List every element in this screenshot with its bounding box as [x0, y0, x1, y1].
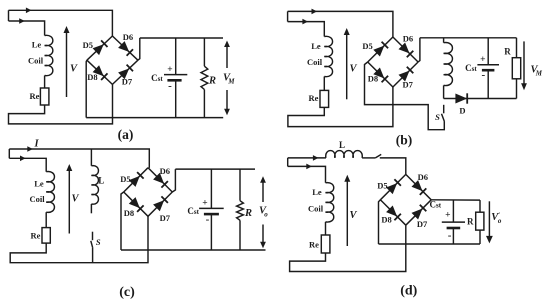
label V — [349, 210, 357, 221]
diode D8 — [380, 200, 405, 225]
label R — [467, 217, 474, 227]
svg-text:+: + — [167, 65, 172, 75]
wire bridge left to rail — [121, 192, 124, 250]
svg-text:D8: D8 — [381, 214, 391, 224]
diode D5 — [124, 168, 148, 192]
current arrow I on top wire — [26, 8, 32, 14]
svg-text:(d): (d) — [400, 284, 417, 299]
svg-text:R: R — [467, 217, 474, 227]
svg-text:Cst: Cst — [430, 200, 442, 210]
diode D7 — [393, 62, 418, 87]
svg-text:D7: D7 — [403, 80, 414, 90]
svg-text:Coil: Coil — [28, 56, 44, 66]
caption (b) — [396, 133, 413, 148]
wire bridge right up — [172, 169, 175, 192]
diode D5 — [87, 36, 113, 60]
label + — [480, 55, 485, 65]
voltage arrow V — [66, 164, 72, 234]
label - — [206, 213, 210, 225]
voltage arrow VM down — [521, 41, 527, 90]
svg-text:D: D — [459, 106, 465, 116]
wire switch to rail — [92, 248, 94, 263]
resistor Re — [40, 88, 49, 105]
label Cst — [151, 73, 163, 83]
wire left vertical — [8, 149, 10, 158]
svg-text:Re: Re — [309, 93, 319, 103]
label I — [33, 139, 39, 150]
svg-text:-: - — [168, 80, 172, 92]
svg-text:Le: Le — [312, 187, 322, 197]
label R — [244, 208, 252, 219]
current arrow on return wire — [20, 156, 26, 162]
label D5 — [120, 174, 130, 184]
wire capacitor Cst top lead — [487, 38, 489, 65]
label R — [208, 76, 216, 87]
label V — [349, 64, 357, 75]
label L — [98, 176, 104, 186]
wire coil to Re — [45, 212, 47, 227]
svg-text:Cst: Cst — [151, 73, 163, 83]
label D7 — [403, 80, 414, 90]
wire Re to bridge bottom — [9, 84, 113, 124]
label Re — [309, 240, 319, 250]
inductor L vertical — [444, 38, 453, 99]
svg-text:D8: D8 — [368, 73, 378, 83]
svg-text:Coil: Coil — [29, 194, 45, 204]
voltage arrow Vo up — [260, 176, 266, 202]
voltage arrow V — [64, 26, 70, 97]
inductor Le — [45, 35, 53, 75]
svg-text:Re: Re — [30, 91, 40, 101]
svg-text:+: + — [445, 211, 450, 221]
label - — [168, 80, 172, 92]
wire dc top rail — [175, 168, 255, 170]
diode D6 — [148, 168, 172, 192]
diode D5 — [380, 174, 405, 199]
inductor Le — [324, 36, 332, 76]
label Re — [309, 93, 319, 103]
wire coil to Re — [325, 222, 327, 235]
current arrow I on top wire — [313, 155, 319, 161]
svg-text:-: - — [206, 213, 210, 225]
label D8 — [124, 208, 134, 218]
wire top with node — [288, 11, 393, 37]
wire bridge left to rail — [85, 60, 88, 117]
diode D8 — [87, 60, 113, 84]
wire top left — [288, 157, 326, 159]
capacitor Cst positive plate — [199, 207, 224, 209]
resistor R — [512, 38, 520, 99]
svg-text:V: V — [349, 64, 357, 75]
caption (d) — [400, 284, 417, 299]
wire Re to bridge bottom — [288, 87, 393, 127]
wire capacitor Cst bottom lead — [175, 80, 177, 117]
wire dc top rail — [431, 199, 480, 201]
label D7 — [122, 76, 133, 86]
svg-text:L: L — [339, 140, 345, 150]
diode D8 — [124, 192, 148, 216]
capacitor Cst negative plate — [482, 69, 495, 72]
label V — [71, 194, 79, 205]
inductor Le — [46, 172, 54, 213]
svg-text:D6: D6 — [123, 32, 133, 42]
switch S contact — [92, 232, 94, 241]
diode D6 — [112, 36, 137, 60]
label D — [459, 106, 465, 116]
switch S blade — [442, 114, 445, 122]
svg-text:D5: D5 — [120, 174, 130, 184]
wire coil to Re — [323, 77, 325, 91]
wire dc top rail — [140, 37, 223, 39]
svg-text:L: L — [98, 176, 104, 186]
svg-text:(c): (c) — [119, 285, 135, 300]
svg-text:D8: D8 — [87, 72, 97, 82]
label + — [202, 198, 207, 208]
label - — [481, 69, 485, 81]
capacitor Cst positive plate — [164, 74, 187, 76]
svg-text:R: R — [244, 208, 252, 219]
switch S contact — [443, 105, 445, 114]
wire capacitor Cst top lead — [210, 169, 212, 208]
svg-text:D5: D5 — [83, 40, 93, 50]
label Le — [32, 40, 42, 50]
label S — [435, 112, 440, 122]
diode D7 — [406, 200, 431, 225]
wire dc top rail — [420, 37, 517, 39]
svg-text:D6: D6 — [160, 166, 170, 176]
svg-text:D6: D6 — [418, 172, 428, 182]
label + — [445, 211, 450, 221]
voltage arrow V — [344, 28, 350, 99]
label - — [448, 230, 452, 242]
wire Re to bridge bottom — [290, 225, 406, 271]
diode D7 — [148, 192, 172, 216]
wire to bridge top — [380, 158, 406, 175]
capacitor Cst negative plate — [167, 79, 181, 82]
label + — [167, 65, 172, 75]
label D7 — [160, 213, 171, 223]
label Le — [312, 187, 322, 197]
wire after coil — [362, 157, 375, 159]
svg-text:Le: Le — [34, 178, 44, 188]
label D6 — [403, 33, 413, 43]
wire dc bottom rail — [444, 98, 517, 100]
svg-text:Cst: Cst — [465, 63, 477, 73]
voltage arrow VM up — [224, 41, 230, 69]
wire top with node — [9, 149, 149, 168]
current arrow on return wire — [302, 19, 308, 25]
wire top with node — [9, 10, 113, 36]
svg-text:Coil: Coil — [308, 204, 324, 214]
svg-text:R: R — [208, 76, 216, 87]
capacitor Cst positive plate — [442, 221, 465, 223]
svg-text:R: R — [504, 46, 511, 56]
label D8 — [87, 72, 97, 82]
label Vo prime — [491, 212, 502, 226]
current arrow I on top wire — [312, 9, 318, 15]
wire bridge right up — [418, 38, 420, 62]
svg-text:Le: Le — [311, 41, 321, 51]
switch blade — [375, 154, 381, 158]
capacitor Cst negative plate — [204, 213, 219, 216]
label Coil — [29, 194, 45, 204]
voltage arrow VM down — [224, 90, 230, 115]
label D8 — [381, 214, 391, 224]
wire left vertical — [287, 158, 289, 167]
svg-text:-: - — [481, 69, 485, 81]
svg-text:D7: D7 — [417, 219, 428, 229]
inductor L branch — [91, 149, 98, 213]
svg-text:D8: D8 — [124, 208, 134, 218]
label Coil — [308, 204, 324, 214]
svg-text:Re: Re — [31, 231, 41, 241]
label L — [339, 140, 345, 150]
inductor L horizontal — [326, 151, 363, 158]
label D7 — [417, 219, 428, 229]
svg-text:+: + — [480, 55, 485, 65]
voltage arrow Vo down — [486, 201, 493, 243]
label S — [96, 237, 101, 247]
label Coil — [307, 57, 323, 67]
wire bridge left to rail — [379, 200, 381, 244]
svg-text:Cst: Cst — [187, 206, 199, 216]
svg-text:+: + — [202, 198, 207, 208]
resistor Re — [321, 235, 330, 253]
label Le — [311, 41, 321, 51]
svg-text:(a): (a) — [118, 127, 134, 142]
wire second — [288, 166, 326, 182]
voltage arrow Vo down — [260, 225, 266, 249]
label D5 — [362, 41, 372, 51]
voltage arrow V — [344, 175, 350, 246]
switch S blade — [91, 241, 93, 248]
wire left vertical — [287, 11, 289, 21]
diode D — [455, 93, 467, 103]
current arrow I on top wire — [27, 146, 33, 152]
label VM — [531, 65, 543, 78]
wire dc bottom rail — [379, 243, 481, 245]
caption (c) — [119, 285, 135, 300]
current arrow on return wire — [306, 164, 312, 170]
label D5 — [377, 180, 387, 190]
diode D8 — [368, 62, 393, 87]
wire capacitor Cst bottom lead — [487, 70, 489, 98]
svg-text:D7: D7 — [122, 76, 133, 86]
diode D6 — [393, 37, 418, 62]
capacitor Cst negative plate — [447, 227, 461, 230]
wire bridge left down — [365, 62, 445, 130]
label R — [504, 46, 511, 56]
wire second — [9, 21, 45, 36]
label VM — [223, 73, 235, 86]
wire capacitor Cst top lead — [175, 38, 177, 75]
svg-text:Re: Re — [309, 240, 319, 250]
label Re — [30, 91, 40, 101]
resistor R — [237, 169, 244, 250]
label Cst — [465, 63, 477, 73]
svg-text:S: S — [96, 237, 101, 247]
svg-text:S: S — [435, 112, 440, 122]
wire second — [9, 158, 46, 171]
diode D5 — [368, 37, 393, 62]
label Vo — [259, 206, 268, 219]
label Re — [31, 231, 41, 241]
resistor Re — [42, 228, 50, 244]
label D6 — [123, 32, 133, 42]
svg-text:D5: D5 — [362, 41, 372, 51]
capacitor Cst positive plate — [477, 64, 499, 66]
svg-text:V: V — [349, 210, 357, 221]
label Le — [34, 178, 44, 188]
inductor Le — [326, 183, 334, 222]
wire capacitor Cst bottom lead — [452, 228, 454, 244]
svg-text:Coil: Coil — [307, 57, 323, 67]
label Cst — [187, 206, 199, 216]
wire second — [288, 22, 325, 37]
svg-text:D6: D6 — [403, 33, 413, 43]
svg-text:D5: D5 — [377, 180, 387, 190]
label D6 — [160, 166, 170, 176]
current arrow on return wire — [19, 18, 25, 24]
wire dc bottom rail — [121, 249, 266, 251]
wire capacitor Cst top lead — [452, 200, 454, 222]
svg-text:V: V — [70, 64, 78, 75]
label Cst — [430, 200, 442, 210]
label D5 — [83, 40, 93, 50]
svg-text:D7: D7 — [160, 213, 171, 223]
label Coil — [28, 56, 44, 66]
label V — [70, 64, 78, 75]
label D8 — [368, 73, 378, 83]
wire left vertical — [8, 10, 10, 21]
wire Re to bottom — [10, 216, 148, 262]
svg-text:-: - — [448, 230, 452, 242]
caption (a) — [118, 127, 134, 142]
svg-text:(b): (b) — [396, 133, 413, 148]
resistor R — [476, 200, 484, 244]
wire bridge right up — [138, 38, 140, 60]
diode D7 — [112, 60, 137, 84]
label D6 — [418, 172, 428, 182]
svg-text:Le: Le — [32, 40, 42, 50]
svg-text:V: V — [71, 194, 79, 205]
diode D6 — [406, 174, 431, 199]
resistor R — [201, 38, 208, 118]
wire dc bottom rail — [86, 117, 223, 119]
wire coil to Re — [44, 76, 46, 89]
wire capacitor Cst bottom lead — [210, 214, 212, 250]
resistor Re — [320, 90, 329, 107]
